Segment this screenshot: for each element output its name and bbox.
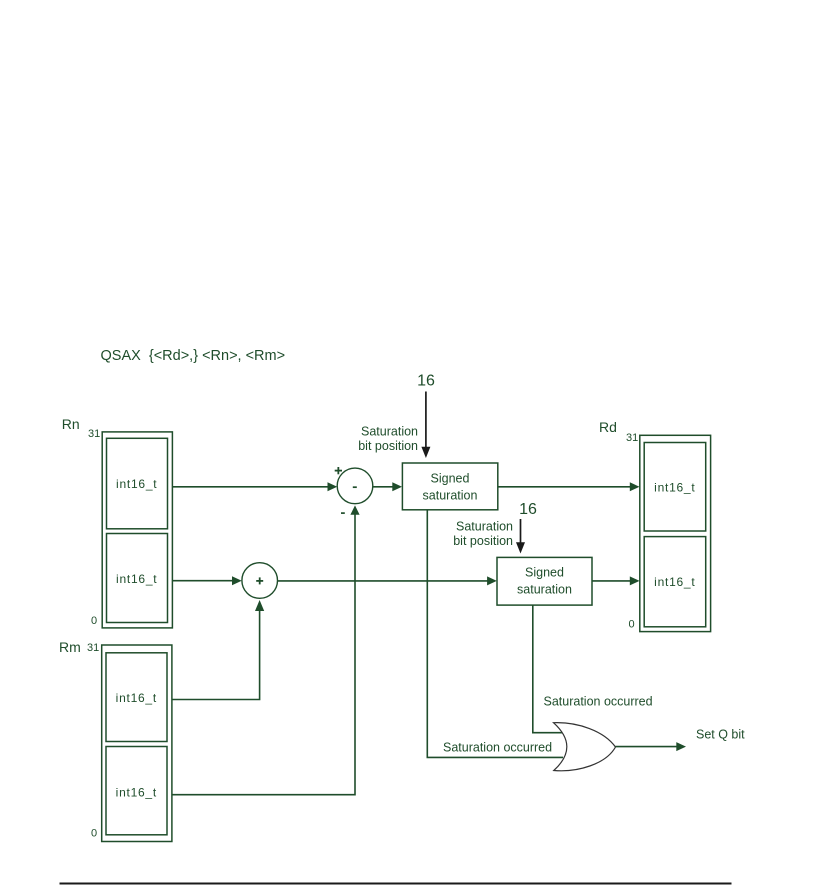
svg-text:31: 31: [88, 428, 100, 440]
svg-text:0: 0: [629, 619, 635, 631]
svg-text:Saturation: Saturation: [456, 520, 513, 534]
wire Rn[31:16] to subtractor: [172, 482, 337, 491]
wire adder to signed saturation 2: [278, 576, 497, 585]
Rm field [15:0] int16_t: [106, 747, 167, 835]
svg-text:int16_t: int16_t: [654, 575, 695, 589]
svg-text:31: 31: [87, 642, 99, 654]
svg-text:QSAX {<Rd>,} <Rn>, <Rm>: QSAX {<Rd>,} <Rn>, <Rm>: [101, 348, 286, 364]
label Saturation occurred (upper wire): [544, 695, 653, 709]
wire saturation2 to Rd[15:0]: [592, 576, 640, 585]
svg-text:Rn: Rn: [62, 416, 80, 432]
svg-text:31: 31: [626, 432, 638, 444]
svg-text:int16_t: int16_t: [116, 691, 157, 705]
signed saturation box U1: [402, 463, 497, 510]
saturation bit position constant 16 (upper): [417, 373, 435, 459]
adder node: [242, 563, 278, 599]
svg-text:0: 0: [91, 615, 97, 627]
wire Rm[15:0] to subtractor (up): [172, 505, 359, 794]
Rn field [15:0] int16_t: [107, 534, 168, 623]
OR gate: [554, 723, 616, 771]
register Rd: [599, 419, 711, 632]
footer rule: [60, 883, 732, 885]
wire saturation2 Q flag down to OR gate: [533, 605, 562, 733]
svg-text:Saturation occurred: Saturation occurred: [443, 741, 552, 755]
svg-text:saturation: saturation: [423, 489, 478, 503]
wire Rm[31:16] to adder (up): [172, 600, 264, 700]
svg-text:Rm: Rm: [59, 639, 81, 655]
svg-text:saturation: saturation: [517, 583, 572, 597]
wire saturation1 to Rd[31:16]: [498, 482, 640, 491]
svg-text:16: 16: [417, 373, 435, 390]
svg-text:Signed: Signed: [431, 472, 470, 486]
label Set Q bit: [696, 728, 745, 742]
svg-text:int16_t: int16_t: [116, 477, 157, 491]
Rd field [15:0] int16_t: [644, 537, 706, 627]
subtractor node: [335, 467, 373, 513]
svg-text:Saturation occurred: Saturation occurred: [544, 695, 653, 709]
label saturation bit position (lower): [453, 520, 513, 548]
svg-text:int16_t: int16_t: [116, 786, 157, 800]
wire saturation1 Q flag down to OR gate: [427, 510, 563, 758]
svg-text:int16_t: int16_t: [654, 481, 695, 495]
instruction syntax label QSAX: [101, 348, 286, 364]
svg-text:bit position: bit position: [358, 439, 418, 453]
wire OR gate output Set Q bit: [616, 742, 687, 751]
svg-text:Rd: Rd: [599, 419, 617, 435]
label saturation bit position (upper): [358, 425, 418, 453]
saturation bit position constant 16 (lower): [516, 501, 537, 554]
signed saturation box U2: [497, 557, 592, 605]
label Saturation occurred (lower wire): [443, 741, 552, 755]
svg-text:0: 0: [91, 828, 97, 840]
svg-text:int16_t: int16_t: [116, 572, 157, 586]
wire subtractor to signed saturation 1: [373, 482, 402, 491]
Rm field [31:16] int16_t: [106, 653, 167, 742]
svg-text:bit position: bit position: [453, 534, 513, 548]
svg-text:Set Q bit: Set Q bit: [696, 728, 745, 742]
Rd field [31:16] int16_t: [644, 443, 706, 532]
svg-text:Signed: Signed: [525, 566, 564, 580]
Rn field [31:16] int16_t: [107, 438, 168, 529]
svg-text:16: 16: [519, 501, 537, 518]
register Rm: [59, 639, 172, 842]
wire Rn[15:0] to adder: [172, 576, 241, 585]
svg-text:Saturation: Saturation: [361, 425, 418, 439]
register Rn: [62, 416, 173, 628]
